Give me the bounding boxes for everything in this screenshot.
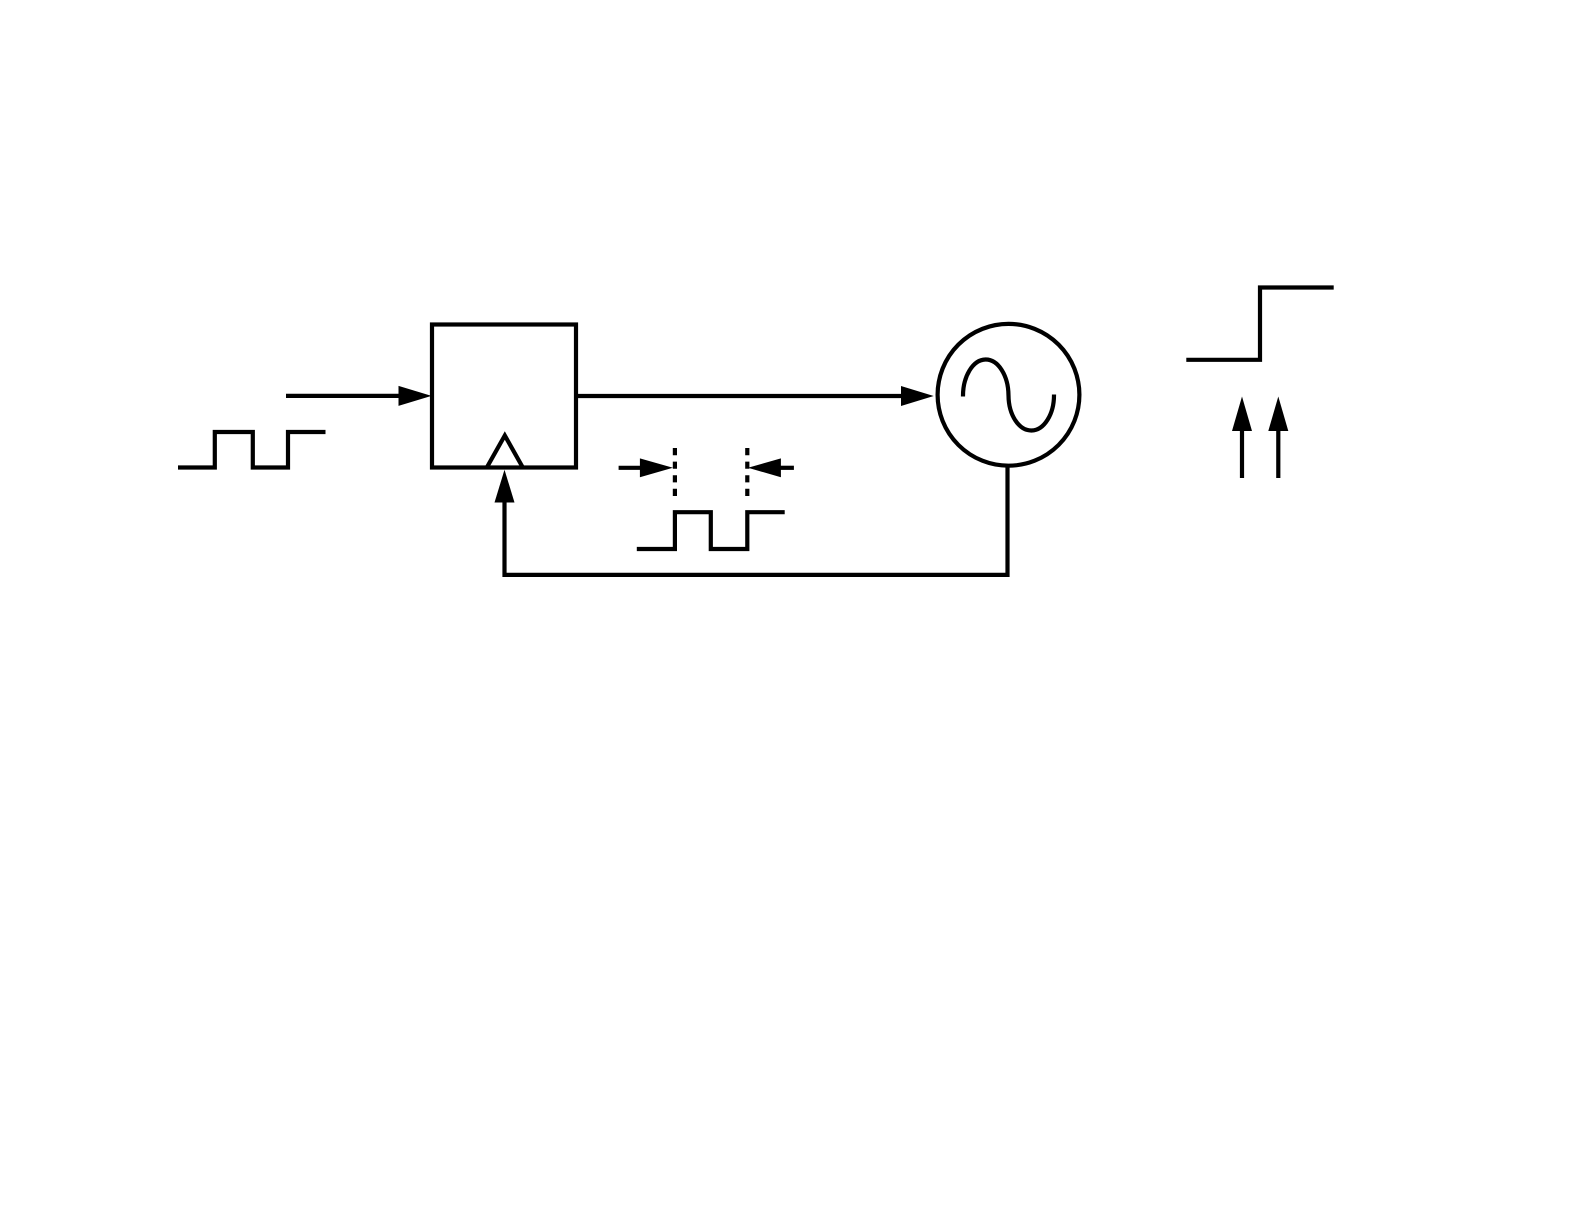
pulse-width arrow right: [779, 466, 794, 470]
feedback wire: [505, 466, 1008, 575]
up arrow 1: [1240, 428, 1244, 478]
dashed marker right: [745, 448, 749, 497]
sine symbol: [963, 359, 1054, 430]
step waveform: [1186, 288, 1333, 360]
dashed marker left: [673, 448, 677, 497]
arrowhead: input wire: [399, 386, 432, 406]
arrowhead: divider to oscillator: [901, 386, 934, 406]
up arrow 2: [1276, 428, 1280, 478]
input clock waveform: [178, 432, 326, 468]
clock edge-trigger mark: [487, 436, 523, 468]
wire: divider to oscillator: [576, 394, 903, 398]
divided clock waveform: [637, 512, 785, 549]
arrowhead: feedback to clock input: [495, 470, 515, 503]
frequency divider box U1: [432, 325, 576, 468]
oscillator U2 circle: [938, 324, 1080, 466]
wire: input to divider: [286, 394, 402, 398]
pulse-width arrow left: [619, 466, 642, 470]
